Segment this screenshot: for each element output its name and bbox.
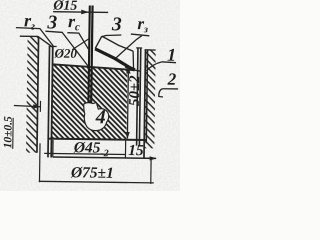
cavity bottom thick line — [48, 138, 147, 141]
O75 left ext — [38, 143, 41, 182]
crucible outer right edge — [146, 49, 149, 143]
O75 right ext — [150, 159, 152, 184]
melt surface line — [53, 64, 135, 70]
crucible inner right edge double line — [136, 48, 139, 146]
leader 1 — [146, 62, 161, 71]
bar junction blob — [125, 66, 135, 70]
leader 2 — [159, 89, 163, 97]
bar tail to wall — [133, 70, 141, 72]
left mold wall top line + slope to crucible — [20, 36, 53, 47]
O75 dim line — [39, 181, 154, 183]
crucible right rim tick — [136, 47, 142, 48]
leader 3 first — [62, 33, 89, 67]
O45 left ext — [52, 140, 54, 157]
dim 50+-2 line vertical — [127, 67, 128, 139]
dim 10+-0.5 line — [14, 106, 41, 107]
melt block hatched — [52, 64, 128, 140]
O15 arrow — [81, 10, 89, 15]
scan grain overlay — [0, 0, 180, 191]
right mold wall top tick — [145, 49, 156, 50]
leader r_z bent — [116, 35, 142, 58]
dim line O15 — [53, 11, 108, 14]
crucible bottom line + 15 dim line — [53, 157, 156, 158]
left mold wall hatch — [26, 37, 39, 153]
crucible left rim tick — [49, 46, 57, 47]
15 dim right arrow — [150, 156, 157, 160]
O45 right ext / 15 box left wall — [124, 140, 126, 158]
leader O20 — [72, 38, 89, 50]
right mold wall left edge — [143, 49, 146, 158]
tick at arrow 10 dim — [39, 101, 41, 112]
underline of rotated text — [12, 118, 14, 149]
arrow 10 dim — [33, 104, 40, 109]
slanted bar left end — [95, 36, 102, 49]
slanted bar right cap — [132, 51, 135, 70]
50 dim top arrow — [126, 67, 131, 74]
leader 3 second — [101, 35, 105, 37]
slanted bar top edge — [102, 36, 134, 51]
right mold wall hatch — [144, 49, 156, 148]
left mold wall right edge — [36, 37, 39, 153]
shrinkage cavity pocket (white) — [83, 102, 109, 130]
50 dim bottom arrow — [125, 132, 130, 139]
slanted bar thick bottom — [95, 49, 134, 70]
crucible left edge double line — [47, 46, 50, 157]
O45 dim line — [44, 153, 125, 154]
stirrer rod — [87, 5, 90, 103]
